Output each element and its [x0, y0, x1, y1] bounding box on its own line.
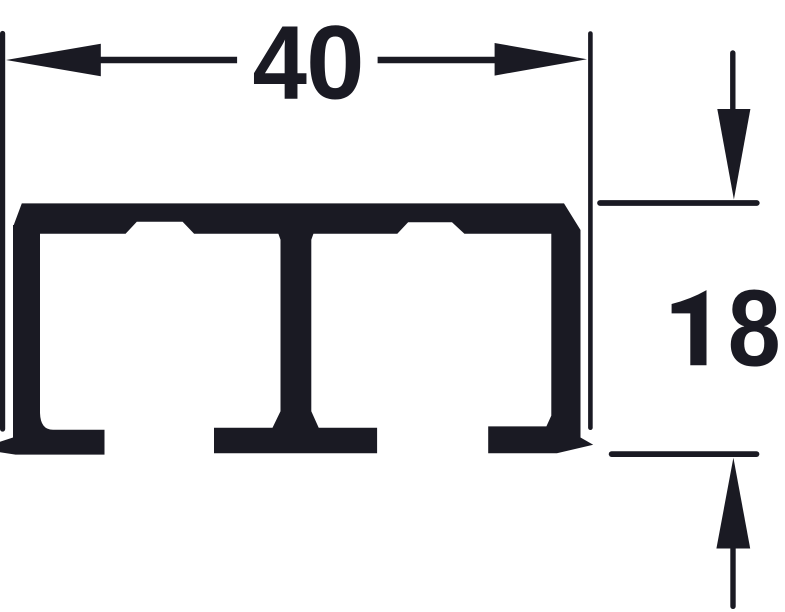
- svg-text:4: 4: [253, 5, 308, 122]
- svg-text:0: 0: [306, 5, 364, 122]
- profile left wall with foot and wedge tip: [0, 225, 105, 455]
- extension line 18 bottom: [612, 451, 757, 457]
- profile middle T divider: [214, 231, 377, 453]
- svg-text:8: 8: [728, 267, 781, 389]
- extension line 18 top: [600, 200, 757, 206]
- arrow 18 up stem: [730, 546, 735, 606]
- dimension text 18 digit 1: [672, 290, 707, 365]
- profile right wall with foot and wedge tip: [488, 231, 593, 453]
- extension line left (width 40): [0, 34, 5, 430]
- dimension line 40 left segment: [99, 57, 237, 63]
- arrowhead 18 down: [717, 109, 750, 200]
- dimension line 40 right segment: [378, 57, 496, 63]
- arrowhead 18 up: [716, 458, 750, 549]
- profile top bar with two trapezoid grooves: [13, 203, 581, 233]
- arrowhead 40 left: [6, 44, 101, 77]
- arrowhead 40 right: [495, 43, 587, 76]
- arrow 18 down stem: [730, 53, 735, 112]
- extension line right (width 40): [588, 34, 593, 428]
